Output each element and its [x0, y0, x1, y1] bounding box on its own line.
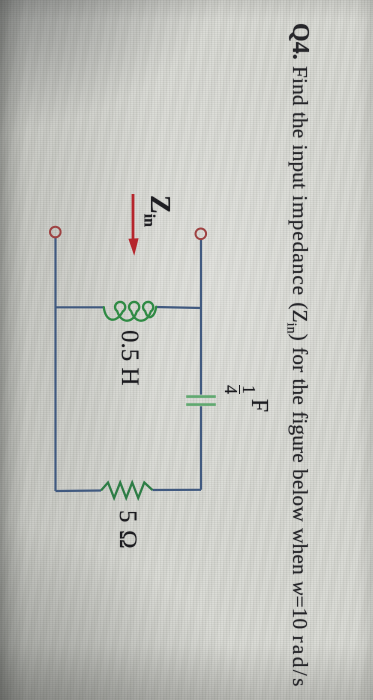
inductor L 0.5H coil [104, 302, 156, 321]
label 1/4 F [223, 385, 271, 412]
terminal left [50, 227, 61, 238]
resistor R 5ohm zigzag [101, 483, 152, 499]
terminal right [196, 229, 207, 240]
wire left vertical [54, 238, 56, 492]
label 0.5 H [117, 330, 142, 386]
question text [278, 23, 312, 689]
wire bottom horizontal left segment [56, 489, 102, 492]
wire right vertical upper [200, 240, 202, 395]
wire top horizontal right segment [156, 307, 201, 308]
label 5 ohm [115, 510, 140, 549]
Zin arrow [132, 194, 135, 241]
wire right vertical lower [200, 406, 202, 490]
capacitor C 1/4F plate bottom [186, 403, 216, 406]
label Zin [134, 195, 173, 227]
wire top horizontal left segment [56, 306, 104, 308]
capacitor C 1/4F plate top [186, 395, 216, 398]
wire bottom horizontal right segment [153, 489, 202, 491]
